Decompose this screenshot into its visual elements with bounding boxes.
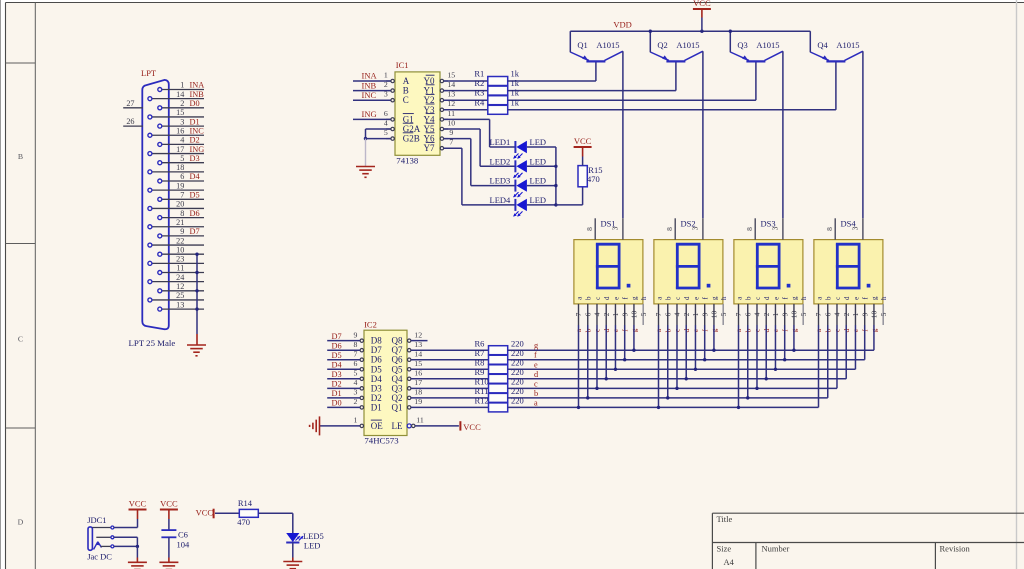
svg-text:LED: LED bbox=[530, 195, 547, 205]
svg-text:17: 17 bbox=[176, 145, 184, 154]
svg-text:5: 5 bbox=[353, 369, 357, 378]
svg-text:R12: R12 bbox=[475, 396, 489, 406]
svg-text:Q4: Q4 bbox=[817, 40, 828, 50]
svg-text:b: b bbox=[665, 296, 673, 300]
svg-text:Q8: Q8 bbox=[392, 336, 403, 346]
svg-text:D1: D1 bbox=[332, 389, 342, 398]
svg-text:g: g bbox=[631, 296, 639, 300]
svg-text:D6: D6 bbox=[371, 355, 382, 365]
svg-text:LE: LE bbox=[392, 421, 403, 431]
svg-text:c: c bbox=[834, 297, 842, 300]
svg-text:Q5: Q5 bbox=[392, 364, 403, 374]
svg-text:25: 25 bbox=[176, 291, 184, 300]
svg-text:2: 2 bbox=[842, 312, 851, 316]
svg-text:1k: 1k bbox=[511, 78, 520, 88]
svg-text:220: 220 bbox=[511, 357, 524, 367]
svg-text:INC: INC bbox=[362, 90, 377, 100]
svg-text:18: 18 bbox=[176, 163, 184, 172]
svg-text:220: 220 bbox=[511, 348, 524, 358]
svg-text:Number: Number bbox=[762, 544, 790, 554]
svg-text:6: 6 bbox=[180, 172, 184, 181]
svg-text:Q2: Q2 bbox=[657, 40, 667, 50]
svg-text:LED2: LED2 bbox=[490, 156, 511, 166]
svg-text:1: 1 bbox=[611, 312, 620, 316]
svg-text:10: 10 bbox=[790, 311, 799, 319]
svg-text:2: 2 bbox=[762, 312, 771, 316]
svg-text:220: 220 bbox=[511, 338, 524, 348]
svg-text:INC: INC bbox=[190, 126, 205, 135]
svg-text:4: 4 bbox=[753, 312, 762, 316]
svg-text:R8: R8 bbox=[475, 357, 485, 367]
svg-text:5: 5 bbox=[639, 312, 648, 316]
svg-text:8: 8 bbox=[665, 227, 674, 231]
svg-text:ING: ING bbox=[190, 145, 205, 154]
svg-text:D3: D3 bbox=[190, 154, 200, 163]
svg-text:LED5: LED5 bbox=[303, 531, 324, 541]
svg-text:D4: D4 bbox=[371, 374, 382, 384]
svg-text:d: d bbox=[763, 296, 771, 300]
svg-text:D1: D1 bbox=[190, 117, 200, 126]
svg-text:74HC573: 74HC573 bbox=[364, 436, 399, 446]
svg-text:D0: D0 bbox=[332, 399, 342, 408]
svg-text:D3: D3 bbox=[332, 370, 342, 379]
svg-text:ING: ING bbox=[362, 109, 377, 119]
svg-text:g: g bbox=[791, 296, 799, 300]
svg-text:3: 3 bbox=[180, 117, 184, 126]
svg-text:b: b bbox=[825, 296, 833, 300]
svg-text:D2: D2 bbox=[190, 136, 200, 145]
svg-text:16: 16 bbox=[176, 126, 184, 135]
svg-text:11: 11 bbox=[176, 264, 184, 273]
svg-text:VCC: VCC bbox=[574, 136, 592, 146]
svg-text:D4: D4 bbox=[190, 172, 201, 181]
svg-text:1: 1 bbox=[353, 416, 357, 425]
svg-text:8: 8 bbox=[585, 227, 594, 231]
svg-text:9: 9 bbox=[780, 312, 789, 316]
svg-text:7: 7 bbox=[180, 191, 184, 200]
svg-text:VCC: VCC bbox=[196, 508, 214, 518]
svg-text:Jac DC: Jac DC bbox=[87, 551, 112, 561]
svg-text:Y7: Y7 bbox=[424, 143, 435, 153]
svg-text:B: B bbox=[18, 152, 23, 161]
svg-text:1k: 1k bbox=[511, 88, 520, 98]
svg-text:1: 1 bbox=[691, 312, 700, 316]
svg-text:D5: D5 bbox=[332, 351, 342, 360]
svg-text:D5: D5 bbox=[371, 364, 382, 374]
svg-text:3: 3 bbox=[851, 226, 860, 230]
svg-text:3: 3 bbox=[691, 226, 700, 230]
svg-text:h: h bbox=[720, 296, 728, 300]
svg-text:27: 27 bbox=[126, 99, 134, 108]
svg-text:IC2: IC2 bbox=[364, 320, 377, 330]
svg-text:A: A bbox=[403, 76, 410, 86]
svg-text:e: e bbox=[772, 297, 780, 300]
svg-text:23: 23 bbox=[176, 255, 184, 264]
svg-text:220: 220 bbox=[511, 367, 524, 377]
svg-text:VCC: VCC bbox=[129, 498, 147, 508]
svg-text:15: 15 bbox=[447, 70, 455, 79]
svg-text:7: 7 bbox=[734, 312, 743, 316]
svg-text:D1: D1 bbox=[371, 402, 382, 412]
svg-text:LPT 25 Male: LPT 25 Male bbox=[129, 338, 176, 348]
svg-text:9: 9 bbox=[620, 312, 629, 316]
svg-text:f: f bbox=[534, 351, 537, 360]
svg-text:13: 13 bbox=[176, 300, 184, 309]
svg-text:1: 1 bbox=[180, 81, 184, 90]
svg-text:D7: D7 bbox=[371, 345, 382, 355]
svg-text:g: g bbox=[711, 296, 719, 300]
svg-text:7: 7 bbox=[654, 312, 663, 316]
svg-text:22: 22 bbox=[176, 236, 184, 245]
svg-text:2: 2 bbox=[353, 397, 357, 406]
svg-text:Size: Size bbox=[717, 543, 732, 553]
svg-text:9: 9 bbox=[700, 312, 709, 316]
svg-text:6: 6 bbox=[384, 109, 388, 118]
svg-text:12: 12 bbox=[414, 330, 422, 339]
svg-text:INA: INA bbox=[362, 71, 378, 81]
svg-text:7: 7 bbox=[574, 312, 583, 316]
svg-text:LPT: LPT bbox=[141, 68, 157, 78]
svg-text:g: g bbox=[534, 341, 538, 350]
svg-text:4: 4 bbox=[833, 312, 842, 316]
svg-text:LED: LED bbox=[530, 176, 547, 186]
svg-text:LED: LED bbox=[530, 156, 547, 166]
svg-text:Q3: Q3 bbox=[392, 383, 403, 393]
svg-text:A1015: A1015 bbox=[836, 40, 859, 50]
svg-text:8: 8 bbox=[180, 209, 184, 218]
svg-text:R6: R6 bbox=[475, 338, 485, 348]
svg-text:1: 1 bbox=[384, 70, 388, 79]
svg-text:4: 4 bbox=[180, 136, 184, 145]
svg-text:10: 10 bbox=[710, 311, 719, 319]
svg-text:VDD: VDD bbox=[613, 20, 631, 30]
svg-text:C6: C6 bbox=[178, 530, 188, 540]
svg-text:A1015: A1015 bbox=[756, 40, 779, 50]
svg-text:VCC: VCC bbox=[463, 422, 481, 432]
svg-text:e: e bbox=[692, 297, 700, 300]
svg-text:INB: INB bbox=[190, 90, 205, 99]
svg-text:20: 20 bbox=[176, 200, 184, 209]
svg-text:VCC: VCC bbox=[160, 498, 178, 508]
svg-text:D2: D2 bbox=[332, 380, 342, 389]
svg-text:220: 220 bbox=[511, 377, 524, 387]
svg-text:8: 8 bbox=[745, 227, 754, 231]
svg-text:R4: R4 bbox=[474, 97, 485, 107]
svg-text:d: d bbox=[843, 296, 851, 300]
svg-text:24: 24 bbox=[176, 273, 184, 282]
svg-text:7: 7 bbox=[814, 312, 823, 316]
svg-text:220: 220 bbox=[511, 386, 524, 396]
svg-text:R7: R7 bbox=[475, 348, 485, 358]
svg-text:104: 104 bbox=[177, 540, 191, 550]
svg-text:6: 6 bbox=[743, 312, 752, 316]
svg-text:15: 15 bbox=[176, 108, 184, 117]
svg-text:10: 10 bbox=[176, 245, 184, 254]
svg-text:D3: D3 bbox=[371, 383, 382, 393]
svg-text:Q4: Q4 bbox=[392, 374, 403, 384]
svg-text:5: 5 bbox=[799, 312, 808, 316]
svg-text:C: C bbox=[18, 335, 23, 344]
svg-text:D7: D7 bbox=[190, 227, 200, 236]
svg-text:1: 1 bbox=[851, 312, 860, 316]
svg-text:Q7: Q7 bbox=[392, 345, 403, 355]
svg-text:LED3: LED3 bbox=[490, 176, 511, 186]
svg-text:A4: A4 bbox=[724, 557, 735, 567]
svg-text:LED: LED bbox=[530, 137, 547, 147]
svg-text:JDC1: JDC1 bbox=[87, 515, 106, 525]
svg-text:2: 2 bbox=[180, 99, 184, 108]
svg-text:7: 7 bbox=[353, 350, 357, 359]
svg-text:D6: D6 bbox=[332, 341, 342, 350]
svg-text:D0: D0 bbox=[190, 99, 200, 108]
svg-text:2: 2 bbox=[602, 312, 611, 316]
svg-text:c: c bbox=[594, 297, 602, 300]
svg-text:1k: 1k bbox=[511, 97, 520, 107]
svg-text:10: 10 bbox=[870, 311, 879, 319]
svg-text:b: b bbox=[534, 389, 538, 398]
svg-text:R2: R2 bbox=[474, 78, 484, 88]
svg-text:INB: INB bbox=[362, 80, 377, 90]
svg-text:R14: R14 bbox=[238, 498, 253, 508]
svg-text:74138: 74138 bbox=[396, 156, 419, 166]
svg-text:21: 21 bbox=[176, 218, 184, 227]
svg-text:G2B: G2B bbox=[403, 134, 420, 144]
svg-text:19: 19 bbox=[176, 181, 184, 190]
svg-text:6: 6 bbox=[583, 312, 592, 316]
svg-text:470: 470 bbox=[587, 174, 600, 184]
svg-text:B: B bbox=[403, 86, 409, 96]
svg-text:470: 470 bbox=[237, 517, 250, 527]
svg-text:e: e bbox=[852, 297, 860, 300]
svg-text:12: 12 bbox=[176, 282, 184, 291]
svg-text:R11: R11 bbox=[475, 386, 489, 396]
svg-text:6: 6 bbox=[353, 359, 357, 368]
svg-text:b: b bbox=[585, 296, 593, 300]
svg-text:b: b bbox=[745, 296, 753, 300]
svg-text:R1: R1 bbox=[474, 69, 484, 79]
svg-text:A1015: A1015 bbox=[596, 40, 619, 50]
svg-text:6: 6 bbox=[663, 312, 672, 316]
svg-text:5: 5 bbox=[879, 312, 888, 316]
svg-text:LED1: LED1 bbox=[490, 137, 511, 147]
svg-text:D8: D8 bbox=[371, 336, 382, 346]
svg-text:D5: D5 bbox=[190, 191, 200, 200]
svg-text:g: g bbox=[871, 296, 879, 300]
svg-text:e: e bbox=[534, 360, 538, 369]
svg-text:Revision: Revision bbox=[940, 543, 971, 553]
svg-text:d: d bbox=[603, 296, 611, 300]
svg-text:26: 26 bbox=[126, 117, 134, 126]
svg-text:h: h bbox=[640, 296, 648, 300]
svg-text:D6: D6 bbox=[190, 209, 200, 218]
svg-text:VCC: VCC bbox=[693, 0, 711, 8]
svg-text:A1015: A1015 bbox=[676, 40, 699, 50]
svg-text:LED: LED bbox=[304, 541, 321, 551]
svg-text:Title: Title bbox=[717, 514, 733, 524]
svg-text:D7: D7 bbox=[332, 332, 342, 341]
svg-text:OE: OE bbox=[371, 421, 383, 431]
svg-text:D4: D4 bbox=[332, 360, 343, 369]
svg-text:h: h bbox=[880, 296, 888, 300]
svg-text:c: c bbox=[674, 297, 682, 300]
svg-text:14: 14 bbox=[176, 90, 184, 99]
svg-text:5: 5 bbox=[719, 312, 728, 316]
svg-text:D: D bbox=[18, 518, 24, 527]
svg-text:Q1: Q1 bbox=[392, 402, 403, 412]
svg-text:3: 3 bbox=[611, 226, 620, 230]
svg-text:IC1: IC1 bbox=[396, 60, 409, 70]
svg-text:h: h bbox=[800, 296, 808, 300]
svg-text:Q1: Q1 bbox=[577, 40, 587, 50]
svg-text:Q6: Q6 bbox=[392, 355, 403, 365]
svg-text:1k: 1k bbox=[511, 69, 520, 79]
svg-text:D2: D2 bbox=[371, 393, 382, 403]
svg-text:R3: R3 bbox=[474, 88, 484, 98]
svg-text:c: c bbox=[754, 297, 762, 300]
svg-text:Q2: Q2 bbox=[392, 393, 403, 403]
svg-text:Q3: Q3 bbox=[737, 40, 747, 50]
svg-text:d: d bbox=[683, 296, 691, 300]
svg-text:2: 2 bbox=[682, 312, 691, 316]
svg-text:3: 3 bbox=[771, 226, 780, 230]
svg-text:4: 4 bbox=[593, 312, 602, 316]
svg-text:c: c bbox=[534, 379, 538, 388]
svg-text:1: 1 bbox=[771, 312, 780, 316]
svg-text:LED4: LED4 bbox=[490, 195, 512, 205]
svg-text:INA: INA bbox=[190, 81, 205, 90]
svg-text:e: e bbox=[612, 297, 620, 300]
svg-text:220: 220 bbox=[511, 396, 524, 406]
svg-text:4: 4 bbox=[673, 312, 682, 316]
svg-text:8: 8 bbox=[825, 227, 834, 231]
svg-text:R10: R10 bbox=[475, 377, 489, 387]
svg-text:4: 4 bbox=[353, 378, 357, 387]
svg-text:9: 9 bbox=[180, 227, 184, 236]
svg-text:3: 3 bbox=[353, 388, 357, 397]
svg-text:a: a bbox=[534, 398, 538, 407]
svg-text:8: 8 bbox=[353, 340, 357, 349]
svg-text:11: 11 bbox=[416, 416, 424, 425]
svg-text:10: 10 bbox=[630, 311, 639, 319]
svg-text:9: 9 bbox=[353, 330, 357, 339]
svg-text:9: 9 bbox=[860, 312, 869, 316]
svg-text:6: 6 bbox=[823, 312, 832, 316]
svg-text:5: 5 bbox=[180, 154, 184, 163]
svg-text:C: C bbox=[403, 95, 409, 105]
svg-text:R9: R9 bbox=[475, 367, 485, 377]
